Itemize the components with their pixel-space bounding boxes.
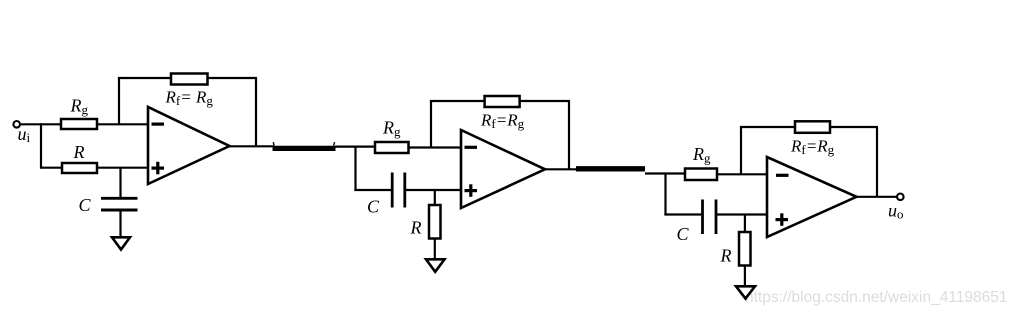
wire junction B to C2 — [354, 189, 392, 191]
svg-text:R: R — [720, 246, 732, 266]
wire bar1 to stage2 junction — [335, 146, 375, 148]
svg-text:Rf= Rg: Rf= Rg — [165, 88, 214, 109]
pin plus U3 — [776, 213, 789, 226]
op-amp U2 — [461, 130, 545, 208]
node Rf1 label — [165, 88, 214, 109]
svg-text:https://blog.csdn.net/weixin_4: https://blog.csdn.net/weixin_41198651 — [745, 289, 1008, 306]
wire Rg1 to op-amp minus — [97, 123, 148, 125]
capacitor C1 — [101, 198, 138, 210]
node C3 label — [677, 224, 690, 244]
wire feedback right vertical U2 — [568, 101, 570, 169]
capacitor C2 — [392, 173, 405, 208]
pin minus U3 — [776, 174, 789, 177]
wire feedback top U2 — [430, 100, 570, 102]
op-amp U3 — [767, 157, 857, 237]
pin plus U2 — [465, 184, 478, 197]
resistor Rf3 — [795, 121, 830, 133]
wire bar2 to stage3 junction — [645, 172, 685, 174]
wire feedback top U1 — [118, 77, 257, 79]
resistor R1 — [62, 163, 97, 173]
wire R2 to ground — [434, 239, 436, 262]
node uo label — [888, 201, 904, 222]
wire Rg3 to op-amp minus — [717, 173, 767, 175]
wire Rg2 to op-amp minus — [409, 146, 462, 148]
node Rf3 label — [790, 137, 835, 158]
svg-text:Rg: Rg — [692, 144, 711, 166]
pin minus U2 — [465, 146, 478, 149]
wire thick link bar 1 — [273, 142, 336, 148]
pin minus U1 — [152, 123, 165, 126]
wire C3 to op-amp plus — [716, 213, 767, 215]
svg-text:R: R — [73, 142, 85, 162]
wire feedback right vertical U3 — [876, 127, 878, 197]
wire plus node down to R2 — [434, 190, 436, 205]
wire R1 to op-amp plus — [97, 167, 148, 169]
ground G2 — [426, 259, 445, 272]
wire junction C vertical — [664, 174, 666, 216]
node Rg1 label — [70, 96, 89, 118]
svg-text:Rg: Rg — [382, 118, 401, 140]
wire junction A to R1 — [40, 167, 62, 169]
resistor Rg3 — [685, 169, 717, 181]
svg-text:uo: uo — [888, 201, 904, 222]
node output terminal — [897, 194, 904, 201]
node C1 label — [79, 195, 92, 215]
resistor Rf2 — [485, 96, 520, 107]
wire junction C to C3 — [664, 213, 702, 215]
resistor R2 — [429, 205, 441, 239]
ground G1 — [112, 237, 130, 249]
node R1 label — [73, 142, 85, 162]
svg-text:C: C — [79, 195, 92, 215]
wire feedback left vertical U2 — [430, 101, 432, 148]
wire C2 to op-amp plus — [405, 189, 461, 191]
pin plus U1 — [152, 162, 165, 175]
wire junction A vertical — [40, 123, 42, 168]
wire feedback left vertical U1 — [118, 78, 120, 124]
resistor Rf1 — [171, 74, 208, 85]
wire feedback left vertical U3 — [740, 127, 742, 174]
wire input to junction A — [21, 123, 61, 125]
wire plus node down to C1 — [119, 168, 121, 197]
svg-text:ui: ui — [18, 124, 31, 145]
wire feedback right vertical U1 — [255, 78, 257, 146]
svg-text:C: C — [367, 197, 380, 217]
svg-text:C: C — [677, 224, 690, 244]
capacitor C3 — [703, 200, 717, 235]
node ui label — [18, 124, 31, 145]
wire U2 output — [545, 168, 577, 170]
wire R3 to ground — [744, 266, 746, 289]
wire C1 to ground — [119, 212, 121, 240]
svg-text:Rf=Rg: Rf=Rg — [790, 137, 835, 158]
wire thick link bar 2 — [576, 166, 645, 171]
node Rg2 label — [382, 118, 401, 140]
svg-text:Rg: Rg — [70, 96, 89, 118]
op-amp U1 — [148, 107, 230, 184]
wire feedback top U3 — [740, 126, 878, 128]
node R3 label — [720, 246, 732, 266]
resistor Rg1 — [61, 119, 97, 129]
node Rf2 label — [480, 111, 525, 132]
svg-text:Rf=Rg: Rf=Rg — [480, 111, 525, 132]
svg-text:R: R — [410, 218, 422, 238]
wire U3 output — [857, 196, 897, 198]
node C2 label — [367, 197, 380, 217]
wire U1 output — [230, 145, 275, 147]
node R2 label — [410, 218, 422, 238]
resistor Rg2 — [375, 142, 409, 153]
node input terminal — [13, 121, 20, 128]
resistor R3 — [739, 232, 751, 266]
ground G3 — [736, 286, 755, 298]
wire plus node down to R3 — [744, 215, 746, 233]
node Rg3 label — [692, 144, 711, 166]
wire junction B vertical — [354, 147, 356, 191]
